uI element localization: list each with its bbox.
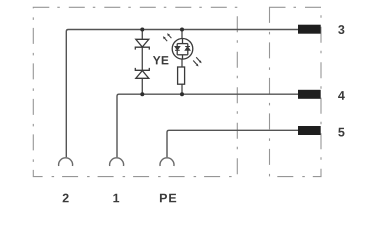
label pin 4	[338, 91, 345, 100]
enclosure: plug side (dash-dot outline, right)	[270, 7, 322, 176]
label terminal PE	[160, 194, 176, 203]
suppressor diode D2 (cathode up, bent-end bar)	[135, 68, 149, 78]
pin 3 (flat plug contact)	[298, 25, 321, 34]
LED U1: dual anti-parallel LED in circle	[172, 39, 193, 60]
label terminal 1	[113, 194, 119, 203]
wire: top bus from terminal 2 riser to pin 3	[66, 30, 298, 158]
LED emission arrows (lower right)	[193, 57, 201, 66]
wire: suppressor-diode branch (vertical at x=142.3)	[141, 30, 143, 95]
terminal PE (socket contact)	[160, 158, 174, 166]
wire: PE riser to pin 5	[167, 130, 298, 157]
wire: LED/resistor branch (vertical at x=182)	[181, 30, 183, 95]
junction: top bus / diode branch	[140, 28, 144, 32]
junction: middle bus / LED branch	[180, 92, 184, 96]
label pin 5	[338, 128, 344, 137]
pin 5 (flat plug contact)	[298, 126, 321, 135]
LED chip left (conducts down)	[175, 47, 180, 51]
label terminal 2	[63, 194, 69, 203]
label YE (yellow LED)	[153, 56, 169, 64]
suppressor diode D1 (cathode down, bent-end bar)	[135, 39, 149, 49]
junction: middle bus / diode branch	[140, 92, 144, 96]
label pin 3	[338, 25, 344, 34]
resistor R1	[178, 67, 185, 84]
LED chip right (conducts up)	[185, 47, 190, 51]
LED emission arrows (upper left)	[163, 33, 172, 41]
terminal 1 (socket contact)	[110, 158, 124, 166]
enclosure: valve connector body (dash-dot outline, left)	[33, 7, 237, 176]
junction: top bus / LED branch	[180, 28, 184, 32]
pin 4 (flat plug contact)	[298, 90, 321, 99]
wire: middle bus from terminal 1 riser to pin 4	[117, 94, 298, 157]
terminal 2 (socket contact)	[59, 158, 73, 166]
